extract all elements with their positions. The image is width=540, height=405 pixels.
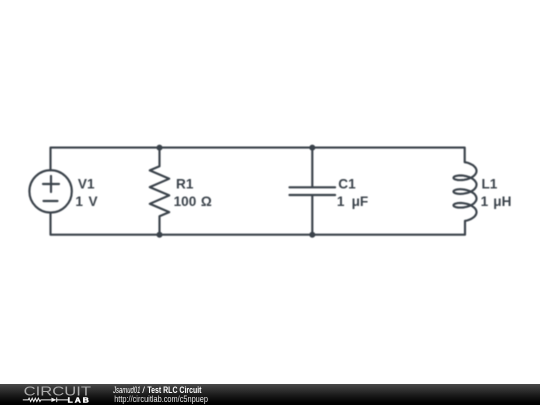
- svg-text:100: 100: [174, 194, 197, 209]
- svg-text:1: 1: [481, 194, 489, 209]
- svg-text:V1: V1: [78, 177, 95, 192]
- svg-text:http://circuitlab.com/c5npuep: http://circuitlab.com/c5npuep: [114, 394, 208, 405]
- svg-text:LAB: LAB: [68, 395, 91, 404]
- svg-text:C1: C1: [338, 177, 356, 192]
- svg-text:μF: μF: [352, 194, 369, 209]
- svg-text:L1: L1: [482, 177, 498, 192]
- svg-text:V: V: [89, 194, 98, 209]
- svg-text:1: 1: [75, 194, 83, 209]
- svg-text:μH: μH: [493, 194, 511, 209]
- svg-text:1: 1: [337, 194, 345, 209]
- svg-text:Ω: Ω: [201, 194, 212, 209]
- svg-text:R1: R1: [176, 177, 194, 192]
